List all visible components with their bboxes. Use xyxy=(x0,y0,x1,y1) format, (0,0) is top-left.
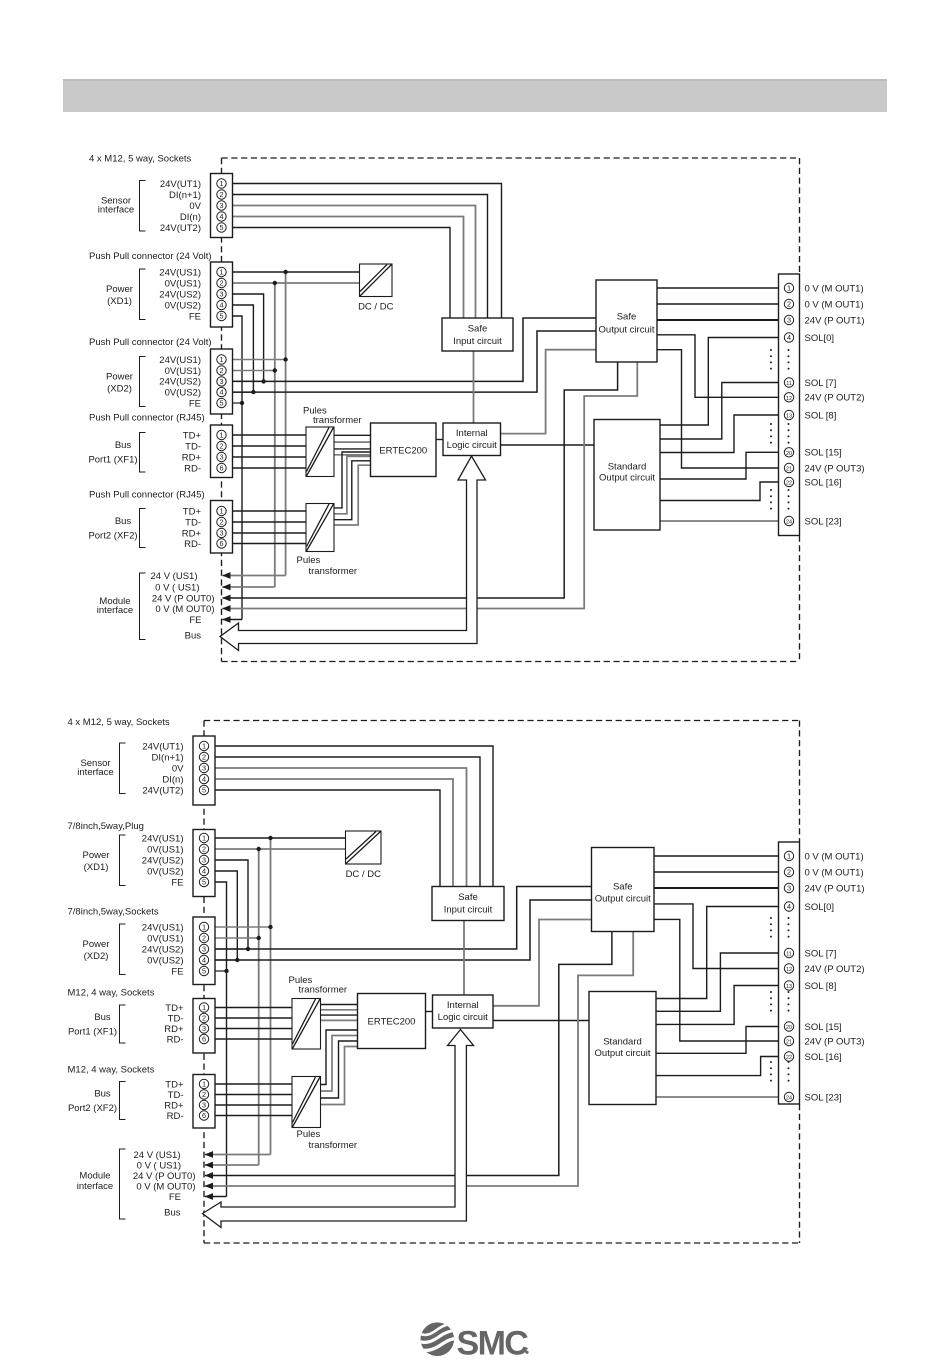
svg-text:0V(US1): 0V(US1) xyxy=(165,366,201,377)
svg-text:interface: interface xyxy=(97,605,133,616)
svg-text:4: 4 xyxy=(219,301,223,310)
svg-text:4 x M12, 5 way, Sockets: 4 x M12, 5 way, Sockets xyxy=(89,154,192,165)
svg-text:DI(n+1): DI(n+1) xyxy=(152,752,184,763)
svg-text:SOL [7]: SOL [7] xyxy=(805,378,837,389)
svg-text:Port1 (XF1): Port1 (XF1) xyxy=(68,1027,117,1038)
svg-text:SOL [16]: SOL [16] xyxy=(805,1052,842,1063)
svg-text:0 V ( US1): 0 V ( US1) xyxy=(155,582,199,593)
svg-text:3: 3 xyxy=(202,945,206,954)
svg-text:11: 11 xyxy=(786,952,792,958)
svg-text:Standard: Standard xyxy=(608,462,647,473)
svg-text:transformer: transformer xyxy=(309,566,358,577)
svg-text:Safe: Safe xyxy=(613,882,633,893)
svg-text:0V(US2): 0V(US2) xyxy=(147,955,183,966)
svg-text:5: 5 xyxy=(202,967,206,976)
svg-text:24V(UT2): 24V(UT2) xyxy=(160,223,201,234)
svg-text:RD+: RD+ xyxy=(182,452,202,463)
svg-text:DC / DC: DC / DC xyxy=(358,302,394,313)
svg-text:0 V (M OUT1): 0 V (M OUT1) xyxy=(805,299,864,310)
svg-text:RD+: RD+ xyxy=(182,528,202,539)
svg-text:RD-: RD- xyxy=(167,1034,184,1045)
svg-text:SMC: SMC xyxy=(457,1325,529,1363)
svg-text:24V(US2): 24V(US2) xyxy=(159,377,201,388)
svg-text:Standard: Standard xyxy=(603,1037,642,1048)
svg-text:2: 2 xyxy=(787,300,791,309)
svg-text:TD+: TD+ xyxy=(183,430,202,441)
svg-text:interface: interface xyxy=(77,767,113,778)
svg-text:DC / DC: DC / DC xyxy=(346,869,382,880)
svg-text:5: 5 xyxy=(219,223,223,232)
svg-text:24: 24 xyxy=(786,520,792,526)
svg-text:24V (P OUT1): 24V (P OUT1) xyxy=(805,883,865,894)
svg-text:Bus: Bus xyxy=(115,516,132,527)
svg-text:(XD2): (XD2) xyxy=(84,951,109,962)
svg-text:ERTEC200: ERTEC200 xyxy=(379,445,427,456)
svg-text:6: 6 xyxy=(202,1035,206,1044)
svg-text:7/8inch,5way,Plug: 7/8inch,5way,Plug xyxy=(68,821,144,832)
svg-text:4: 4 xyxy=(787,333,791,342)
svg-text:0V(US1): 0V(US1) xyxy=(147,844,183,855)
svg-text:0V(US1): 0V(US1) xyxy=(165,278,201,289)
svg-text:Push Pull connector (RJ45): Push Pull connector (RJ45) xyxy=(89,490,205,501)
svg-text:Pules: Pules xyxy=(297,1129,321,1140)
svg-text:24V (P OUT2): 24V (P OUT2) xyxy=(805,393,865,404)
svg-text:TD-: TD- xyxy=(168,1090,184,1101)
svg-text:24V(US1): 24V(US1) xyxy=(159,267,201,278)
svg-text:13: 13 xyxy=(786,984,792,990)
svg-text:1: 1 xyxy=(202,834,206,843)
svg-text:20: 20 xyxy=(786,1025,792,1031)
svg-text:Output circuit: Output circuit xyxy=(595,894,651,905)
svg-text:1: 1 xyxy=(219,179,223,188)
svg-text:Port2 (XF2): Port2 (XF2) xyxy=(88,531,137,542)
svg-text:0V(US2): 0V(US2) xyxy=(165,300,201,311)
svg-text:12: 12 xyxy=(786,967,792,973)
svg-text:2: 2 xyxy=(219,442,223,451)
svg-text:Power: Power xyxy=(106,284,133,295)
svg-text:24V(US2): 24V(US2) xyxy=(159,289,201,300)
svg-text:1: 1 xyxy=(219,507,223,516)
svg-text:SOL [8]: SOL [8] xyxy=(805,410,837,421)
svg-text:TD-: TD- xyxy=(168,1013,184,1024)
svg-text:Internal: Internal xyxy=(447,1000,479,1011)
svg-text:SOL [7]: SOL [7] xyxy=(805,948,837,959)
svg-text:3: 3 xyxy=(202,764,206,773)
svg-text:FE: FE xyxy=(171,877,183,888)
svg-text:0 V (M OUT0): 0 V (M OUT0) xyxy=(136,1181,195,1192)
svg-text:3: 3 xyxy=(219,529,223,538)
svg-text:FE: FE xyxy=(189,311,201,322)
svg-text:Power: Power xyxy=(106,371,133,382)
svg-text:(XD1): (XD1) xyxy=(107,296,132,307)
svg-text:transformer: transformer xyxy=(299,985,348,996)
svg-text:RD+: RD+ xyxy=(164,1024,184,1035)
svg-text:1: 1 xyxy=(219,431,223,440)
svg-text:2: 2 xyxy=(219,518,223,527)
svg-text:(XD1): (XD1) xyxy=(84,862,109,873)
svg-text:0V(US2): 0V(US2) xyxy=(165,387,201,398)
svg-text:M12, 4 way, Sockets: M12, 4 way, Sockets xyxy=(68,988,155,999)
svg-text:Logic circuit: Logic circuit xyxy=(438,1012,489,1023)
svg-text:Pules: Pules xyxy=(297,555,321,566)
svg-text:TD+: TD+ xyxy=(165,1003,184,1014)
svg-text:RD-: RD- xyxy=(167,1111,184,1122)
svg-text:3: 3 xyxy=(219,377,223,386)
svg-text:Bus: Bus xyxy=(164,1208,181,1219)
svg-text:RD+: RD+ xyxy=(164,1100,184,1111)
svg-text:4 x M12, 5 way, Sockets: 4 x M12, 5 way, Sockets xyxy=(68,717,171,728)
svg-text:4: 4 xyxy=(787,902,791,911)
svg-text:transformer: transformer xyxy=(313,415,362,426)
svg-text:4: 4 xyxy=(219,388,223,397)
svg-text:3: 3 xyxy=(219,290,223,299)
svg-text:DI(n): DI(n) xyxy=(180,212,201,223)
svg-text:0V: 0V xyxy=(189,201,201,212)
svg-text:FE: FE xyxy=(169,1192,181,1203)
svg-text:3: 3 xyxy=(202,856,206,865)
svg-text:SOL [15]: SOL [15] xyxy=(805,1022,842,1033)
svg-text:24V(UT1): 24V(UT1) xyxy=(160,179,201,190)
svg-text:24 V (P OUT0): 24 V (P OUT0) xyxy=(133,1171,196,1182)
svg-text:FE: FE xyxy=(189,398,201,409)
svg-text:Safe: Safe xyxy=(617,312,637,323)
svg-text:Bus: Bus xyxy=(185,631,202,642)
svg-text:24V (P OUT3): 24V (P OUT3) xyxy=(805,1036,865,1047)
svg-text:1: 1 xyxy=(202,923,206,932)
svg-text:24V(US2): 24V(US2) xyxy=(142,944,184,955)
svg-text:0 V (M OUT0): 0 V (M OUT0) xyxy=(155,604,214,615)
svg-text:24: 24 xyxy=(786,1096,792,1102)
svg-text:22: 22 xyxy=(786,481,792,487)
svg-text:2: 2 xyxy=(219,366,223,375)
svg-text:4: 4 xyxy=(202,867,206,876)
svg-text:3: 3 xyxy=(219,453,223,462)
svg-text:3: 3 xyxy=(787,884,791,893)
svg-text:2: 2 xyxy=(202,753,206,762)
svg-text:24 V (P OUT0): 24 V (P OUT0) xyxy=(152,593,215,604)
svg-text:6: 6 xyxy=(219,464,223,473)
svg-text:24V(UT1): 24V(UT1) xyxy=(142,741,183,752)
svg-text:DI(n): DI(n) xyxy=(162,774,183,785)
svg-text:3: 3 xyxy=(202,1101,206,1110)
svg-text:5: 5 xyxy=(219,312,223,321)
svg-text:24V (P OUT3): 24V (P OUT3) xyxy=(805,463,865,474)
svg-text:Port1 (XF1): Port1 (XF1) xyxy=(88,455,137,466)
svg-text:ERTEC200: ERTEC200 xyxy=(368,1017,416,1028)
svg-text:21: 21 xyxy=(786,1040,792,1046)
svg-text:24V (P OUT1): 24V (P OUT1) xyxy=(805,315,865,326)
svg-text:Output circuit: Output circuit xyxy=(599,325,655,336)
svg-text:SOL [16]: SOL [16] xyxy=(805,477,842,488)
svg-text:Safe: Safe xyxy=(458,892,478,903)
svg-text:1: 1 xyxy=(787,284,791,293)
svg-text:20: 20 xyxy=(786,451,792,457)
svg-text:24V (P OUT2): 24V (P OUT2) xyxy=(805,964,865,975)
svg-text:Power: Power xyxy=(83,850,110,861)
svg-text:FE: FE xyxy=(171,966,183,977)
svg-text:RD-: RD- xyxy=(184,463,201,474)
svg-text:1: 1 xyxy=(202,1003,206,1012)
svg-text:interface: interface xyxy=(77,1181,113,1192)
svg-text:6: 6 xyxy=(202,1111,206,1120)
svg-text:Safe: Safe xyxy=(468,324,488,335)
svg-text:1: 1 xyxy=(787,852,791,861)
svg-text:Logic circuit: Logic circuit xyxy=(447,440,498,451)
svg-text:SOL [23]: SOL [23] xyxy=(805,1092,842,1103)
svg-text:SOL [23]: SOL [23] xyxy=(805,516,842,527)
svg-text:4: 4 xyxy=(202,956,206,965)
svg-text:2: 2 xyxy=(202,845,206,854)
svg-text:2: 2 xyxy=(219,279,223,288)
svg-text:1: 1 xyxy=(202,742,206,751)
svg-text:0 V (M OUT1): 0 V (M OUT1) xyxy=(805,851,864,862)
svg-text:TD+: TD+ xyxy=(165,1079,184,1090)
svg-text:Bus: Bus xyxy=(94,1012,111,1023)
svg-text:SOL[0]: SOL[0] xyxy=(805,333,835,344)
svg-text:3: 3 xyxy=(219,201,223,210)
svg-text:24V(US1): 24V(US1) xyxy=(142,833,184,844)
svg-text:0 V ( US1): 0 V ( US1) xyxy=(137,1160,181,1171)
svg-text:0V(US2): 0V(US2) xyxy=(147,866,183,877)
svg-text:transformer: transformer xyxy=(309,1140,358,1151)
svg-text:Module: Module xyxy=(79,1171,110,1182)
svg-text:RD-: RD- xyxy=(184,539,201,550)
svg-text:0V: 0V xyxy=(172,763,184,774)
svg-text:Push Pull connector (RJ45): Push Pull connector (RJ45) xyxy=(89,413,205,424)
svg-text:Input circuit: Input circuit xyxy=(444,905,493,916)
svg-text:2: 2 xyxy=(202,1090,206,1099)
svg-text:2: 2 xyxy=(202,1014,206,1023)
svg-text:Port2 (XF2): Port2 (XF2) xyxy=(68,1103,117,1114)
svg-text:3: 3 xyxy=(787,316,791,325)
svg-text:Output circuit: Output circuit xyxy=(599,473,655,484)
svg-text:TD-: TD- xyxy=(185,441,201,452)
svg-text:5: 5 xyxy=(202,878,206,887)
svg-text:1: 1 xyxy=(219,355,223,364)
svg-text:SOL[0]: SOL[0] xyxy=(805,902,835,913)
svg-text:4: 4 xyxy=(219,212,223,221)
svg-text:24 V (US1): 24 V (US1) xyxy=(151,571,198,582)
svg-text:Push Pull connector (24 Volt): Push Pull connector (24 Volt) xyxy=(89,337,212,348)
svg-text:4: 4 xyxy=(202,775,206,784)
svg-text:FE: FE xyxy=(189,615,201,626)
svg-text:(XD2): (XD2) xyxy=(107,383,132,394)
svg-text:3: 3 xyxy=(202,1024,206,1033)
svg-text:TD-: TD- xyxy=(185,517,201,528)
svg-text:24V(US1): 24V(US1) xyxy=(142,922,184,933)
svg-text:24 V (US1): 24 V (US1) xyxy=(134,1150,181,1161)
svg-text:Power: Power xyxy=(83,939,110,950)
svg-text:2: 2 xyxy=(787,868,791,877)
svg-text:Internal: Internal xyxy=(456,428,488,439)
svg-text:0V(US1): 0V(US1) xyxy=(147,933,183,944)
svg-text:11: 11 xyxy=(786,381,792,387)
svg-text:2: 2 xyxy=(202,934,206,943)
svg-text:5: 5 xyxy=(202,786,206,795)
svg-text:Input circuit: Input circuit xyxy=(453,336,502,347)
svg-text:TD+: TD+ xyxy=(183,506,202,517)
svg-text:Output circuit: Output circuit xyxy=(595,1048,651,1059)
svg-text:22: 22 xyxy=(786,1055,792,1061)
svg-text:13: 13 xyxy=(786,414,792,420)
svg-text:21: 21 xyxy=(786,467,792,473)
svg-text:1: 1 xyxy=(202,1080,206,1089)
svg-text:7/8inch,5way,Sockets: 7/8inch,5way,Sockets xyxy=(68,907,159,918)
svg-text:interface: interface xyxy=(98,205,134,216)
svg-text:5: 5 xyxy=(219,399,223,408)
svg-text:0 V (M OUT1): 0 V (M OUT1) xyxy=(805,283,864,294)
svg-text:0 V (M OUT1): 0 V (M OUT1) xyxy=(805,867,864,878)
svg-text:24V(US1): 24V(US1) xyxy=(159,355,201,366)
svg-text:Push Pull connector (24 Volt): Push Pull connector (24 Volt) xyxy=(89,251,212,262)
svg-text:6: 6 xyxy=(219,539,223,548)
svg-text:M12, 4 way, Sockets: M12, 4 way, Sockets xyxy=(68,1065,155,1076)
svg-text:Bus: Bus xyxy=(115,440,132,451)
svg-text:12: 12 xyxy=(786,396,792,402)
svg-text:Bus: Bus xyxy=(94,1088,111,1099)
svg-text:SOL [8]: SOL [8] xyxy=(805,981,837,992)
svg-text:24V(UT2): 24V(UT2) xyxy=(142,785,183,796)
svg-text:24V(US2): 24V(US2) xyxy=(142,855,184,866)
svg-text:1: 1 xyxy=(219,268,223,277)
svg-text:DI(n+1): DI(n+1) xyxy=(169,190,201,201)
svg-text:SOL [15]: SOL [15] xyxy=(805,448,842,459)
svg-text:2: 2 xyxy=(219,190,223,199)
